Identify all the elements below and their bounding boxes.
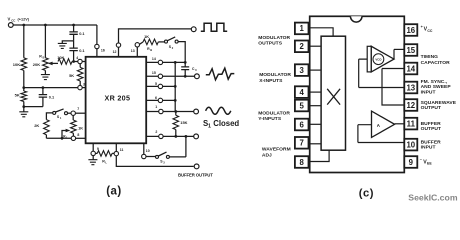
wire pin1 to multiplier [309,28,334,36]
junction cap3 top [42,86,45,89]
svg-text:15K: 15K [180,120,187,125]
wire node7 to box [75,112,85,114]
wire VCO bracket vertical [393,49,395,59]
junction 15K top [174,110,177,113]
pin 4 box [295,86,309,98]
wire pin10 to A input [358,125,404,143]
pin 6 circle [158,98,162,102]
wire pin7 to multiplier [309,143,322,145]
svg-text:BUFFER: BUFFER [421,121,442,127]
pin 15 circle [158,74,162,78]
wire VCO to pin12 [382,69,404,106]
wire pin14 to VCO [382,68,404,70]
svg-text:3: 3 [300,66,305,75]
pin 11 circle [114,151,118,155]
resistor 2K [44,120,50,135]
Vcc rail wire [13,24,97,26]
pin 5 box [295,100,309,112]
triangle output terminal [195,74,200,79]
node 4 [78,59,82,63]
svg-text:TIMING: TIMING [421,54,439,60]
svg-text:13: 13 [131,49,135,53]
svg-text:X-INPUTS: X-INPUTS [259,78,283,84]
junction bus-14 [174,61,177,64]
svg-text:MODULATOR: MODULATOR [258,35,290,41]
svg-text:ADJ: ADJ [262,152,272,158]
wire pin13 to VCO input [359,59,405,87]
pin 14 wire [146,61,185,63]
sine wave symbol [206,107,231,114]
svg-text:VCO: VCO [375,58,382,62]
switch S2 [165,40,168,43]
ground mid caps [58,43,67,48]
pin 13 box [404,82,417,94]
pin 12 box [404,99,417,111]
pin 16 riser [96,25,98,57]
potentiometer 10K horizontal [58,59,72,65]
pin 8 box [295,156,309,168]
svg-text:0.1: 0.1 [79,31,85,36]
wire pin3 to multiplier [309,69,322,71]
svg-text:9: 9 [409,158,414,167]
multiplier block [321,36,345,150]
pin 2 box [295,41,309,53]
svg-text:Y-INPUTS: Y-INPUTS [258,116,282,122]
svg-text:4: 4 [76,56,78,60]
svg-text:MODULATOR: MODULATOR [258,110,290,116]
junction bus-6 [174,99,177,102]
svg-text:0.1: 0.1 [49,94,55,99]
ground lower-left [23,107,25,112]
svg-text:16: 16 [406,26,415,35]
wire pin5 to multiplier [309,105,322,107]
junction wiper [61,137,64,140]
svg-text:INPUT: INPUT [421,144,436,150]
VCO triangle [371,46,394,72]
pin 10 stub [143,143,145,154]
capacitor 0.1 left [42,88,44,95]
sine2 output terminal [194,134,199,139]
ground under 20K [41,75,50,80]
pin 1 circle [159,109,163,113]
svg-text:6: 6 [300,120,305,129]
junction Vcc-10K [22,24,25,27]
wire pin8 to multiplier [309,150,330,161]
svg-text:MODULATOR: MODULATOR [259,72,291,78]
junction S3 riser [185,135,188,138]
svg-text:10: 10 [406,140,415,149]
wire pin4 to multiplier [309,91,322,93]
svg-text:FM. SYNC.,: FM. SYNC., [421,79,448,85]
svg-text:11: 11 [120,148,124,152]
pin 16 box [404,24,417,36]
wire pin2 to multiplier [309,45,322,47]
svg-text:10K: 10K [57,55,64,60]
pin 12 circle [116,43,120,47]
wire S3 riser [185,136,187,157]
svg-text:5: 5 [300,101,305,110]
svg-text:7: 7 [300,139,304,148]
resistor 15K [175,112,177,116]
switch S1 [53,111,56,114]
svg-text:OUTPUT: OUTPUT [421,105,441,111]
svg-text:11: 11 [407,119,416,128]
pin 11 stub [115,143,117,151]
svg-text:12: 12 [113,50,117,54]
svg-text:WAVEFORM: WAVEFORM [262,147,291,153]
wire S3 to riser [170,156,186,158]
junction 15K bottom [174,135,177,138]
wire S1 to node7 [68,112,72,114]
pin 14 circle [158,60,162,64]
wire 2K to node8 [46,137,71,139]
svg-text:B: B [43,56,45,60]
pin 2 circle [159,134,163,138]
svg-text:1K: 1K [144,34,149,39]
wiper arrow 1K [62,131,66,139]
wire S2 to C0 bus [178,42,185,63]
svg-text:5K: 5K [15,92,20,97]
wire node3 to box [82,87,85,89]
svg-text:10K: 10K [13,62,20,67]
pin 6 box [295,119,309,131]
pin 15 box [404,44,417,56]
pin 14 box [404,63,417,75]
Vcc input terminal [8,23,13,28]
svg-text:Closed: Closed [213,119,239,128]
junction 5K-cap [22,105,25,108]
pin 10 circle [142,154,146,158]
svg-text:14: 14 [152,57,156,61]
junction bus-5 [174,85,177,88]
svg-text:(+12V): (+12V) [18,17,30,21]
wire A to pin11 [395,123,405,125]
svg-text:4: 4 [300,88,305,97]
svg-text:20K: 20K [33,62,40,67]
potentiometer 20K [44,25,46,58]
svg-text:(a): (a) [106,185,122,197]
multiplier X symbol [327,89,340,105]
svg-text:SeekIC.com: SeekIC.com [408,192,458,202]
svg-text:2: 2 [300,42,305,51]
svg-text:5K: 5K [69,73,74,78]
pin 2 wire [146,135,193,137]
ground pin 9 [92,156,94,160]
wire pin15 to VCO bracket [394,48,404,50]
pin 12 wire to squarewave [119,29,192,43]
squarewave output terminal [191,27,196,32]
wire node8 to box [76,137,86,139]
wire node3 rail [24,87,78,89]
amplifier A triangle [372,111,395,137]
VCO input bar [367,46,371,72]
node 8 [71,136,75,140]
pin 3 box [295,64,309,76]
svg-text:6: 6 [155,96,157,100]
svg-text:OUTPUT: OUTPUT [421,126,441,132]
pin 5 wire [146,85,175,87]
resistor 5K vertical [79,64,81,68]
svg-text:INPUT: INPUT [421,89,436,95]
node 7 [71,111,75,115]
wiper arrow 20K [51,62,58,64]
svg-text:8: 8 [77,133,79,137]
pin 1 wire [146,111,193,113]
buffer output wire [116,156,193,167]
svg-text:BUFFER OUTPUT: BUFFER OUTPUT [178,172,213,177]
svg-text:14: 14 [406,64,415,73]
svg-text:OUTPUTS: OUTPUTS [258,40,282,46]
pin 9 circle [91,151,95,155]
junction C0 top [184,61,187,64]
svg-text:2: 2 [155,130,157,134]
junction rail-left [22,86,25,89]
svg-text:15: 15 [152,71,156,75]
switch S3 [156,155,159,158]
svg-text:1K: 1K [78,126,83,131]
svg-text:12: 12 [406,101,415,110]
resistor RL [96,152,98,154]
svg-text:0.1: 0.1 [79,48,85,53]
svg-text:16: 16 [101,48,105,52]
junction C0 bottom [184,75,187,78]
pin 11 box [404,118,417,130]
svg-text:1: 1 [300,24,305,33]
wire caps to ground [62,41,73,43]
IC notch [350,16,362,22]
svg-text:8: 8 [300,158,305,167]
pin 10 box [404,139,417,151]
node 3 [78,85,82,89]
IC body outline [310,16,405,172]
svg-text:10: 10 [146,149,150,153]
junction cap2-pot [72,60,75,63]
pin 5 circle [158,84,162,88]
squarewave symbol [201,23,227,31]
svg-text:AND SWEEP: AND SWEEP [421,84,452,90]
svg-text:1: 1 [155,105,157,109]
svg-text:13: 13 [406,83,415,92]
pin 6 wire [146,99,175,101]
svg-text:V: V [8,16,11,21]
svg-text:B: B [150,48,152,52]
svg-text:CAPACITOR: CAPACITOR [421,60,450,66]
svg-text:5: 5 [155,82,157,86]
VCO circle [373,54,384,65]
junction Vcc-20K [44,24,47,27]
resistor 1K sweep [140,42,144,44]
junction Vcc-caps [72,24,75,27]
sine output terminal [194,109,199,114]
IC XR 205 box [86,57,147,144]
capacitor 0.1 lower [73,41,75,48]
resistor 10K upper-left [23,25,25,58]
svg-text:1: 1 [208,124,211,130]
svg-text:CC: CC [427,29,433,33]
svg-text:2K: 2K [34,123,39,128]
pin 9 box [404,156,417,168]
wire S1 to 2K [46,113,52,120]
svg-text:XR 205: XR 205 [105,94,131,103]
svg-text:15: 15 [406,46,415,55]
svg-text:EE: EE [427,162,432,166]
wire node4 to box [82,61,85,63]
bus wire 14-to-1 [174,62,176,111]
svg-text:7: 7 [77,107,79,111]
svg-text:BUFFER: BUFFER [421,139,442,145]
pin 13 circle [135,43,139,47]
pin 7 box [295,137,309,149]
resistor 5K lower-left [23,88,25,91]
pin 9 stub [92,143,94,151]
wire pin6 to multiplier [309,123,322,125]
svg-text:(c): (c) [359,188,374,200]
wire pin10 to S3 [146,156,156,158]
capacitor C0 [184,62,186,66]
triangle wave symbol [206,68,234,80]
potentiometer 1K vertical [72,115,74,120]
pin 1 box [295,23,309,35]
pin 16 circle [95,44,99,48]
pin 15 wire [146,75,194,77]
buffer output terminal [194,164,199,169]
capacitor 0.1 upper [73,25,75,32]
